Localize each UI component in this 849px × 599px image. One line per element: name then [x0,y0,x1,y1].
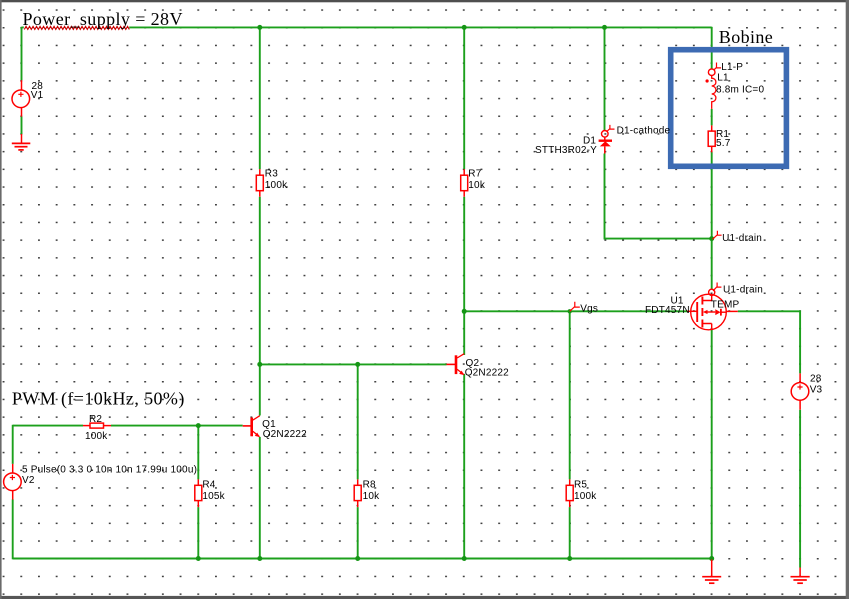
svg-text:R3: R3 [265,169,278,180]
svg-text:Q2N2222: Q2N2222 [465,368,509,379]
svg-text:100k: 100k [85,431,108,442]
svg-text:U1-drain: U1-drain [723,285,763,296]
svg-text:8.8m IC=0: 8.8m IC=0 [716,84,764,95]
svg-text:10k: 10k [468,180,486,191]
svg-text:L1-P: L1-P [721,62,743,73]
svg-text:STTH3R02-Y: STTH3R02-Y [535,145,597,156]
svg-text:105k: 105k [202,491,225,502]
svg-text:TEMP: TEMP [711,299,740,310]
svg-text:5.7: 5.7 [716,138,731,149]
svg-text:28: 28 [810,373,822,384]
svg-text:V2: V2 [22,475,35,486]
svg-text:10k: 10k [363,491,381,502]
svg-text:R4: R4 [202,480,215,491]
svg-text:D1-cathode: D1-cathode [617,126,671,137]
svg-text:Bobine: Bobine [719,27,773,47]
svg-text:U1-drain: U1-drain [722,233,762,244]
svg-text:V1: V1 [31,90,44,101]
svg-text:L1: L1 [717,73,729,84]
svg-text:Power_supply = 28V: Power_supply = 28V [23,9,183,29]
svg-text:R2: R2 [89,414,102,425]
svg-text:V3: V3 [810,385,823,396]
svg-text:5 Pulse(0 3.3 0 10n 10n 17.99u: 5 Pulse(0 3.3 0 10n 10n 17.99u 100u) [22,464,197,475]
svg-text:100k: 100k [574,491,597,502]
svg-text:R5: R5 [574,480,587,491]
svg-text:R8: R8 [363,480,376,491]
svg-text:R7: R7 [468,169,481,180]
svg-text:100k: 100k [265,180,288,191]
svg-text:Q2N2222: Q2N2222 [263,429,307,440]
svg-text:FDT457N: FDT457N [645,305,690,316]
svg-text:Vgs: Vgs [580,304,598,315]
svg-text:PWM (f=10kHz, 50%): PWM (f=10kHz, 50%) [12,388,185,409]
